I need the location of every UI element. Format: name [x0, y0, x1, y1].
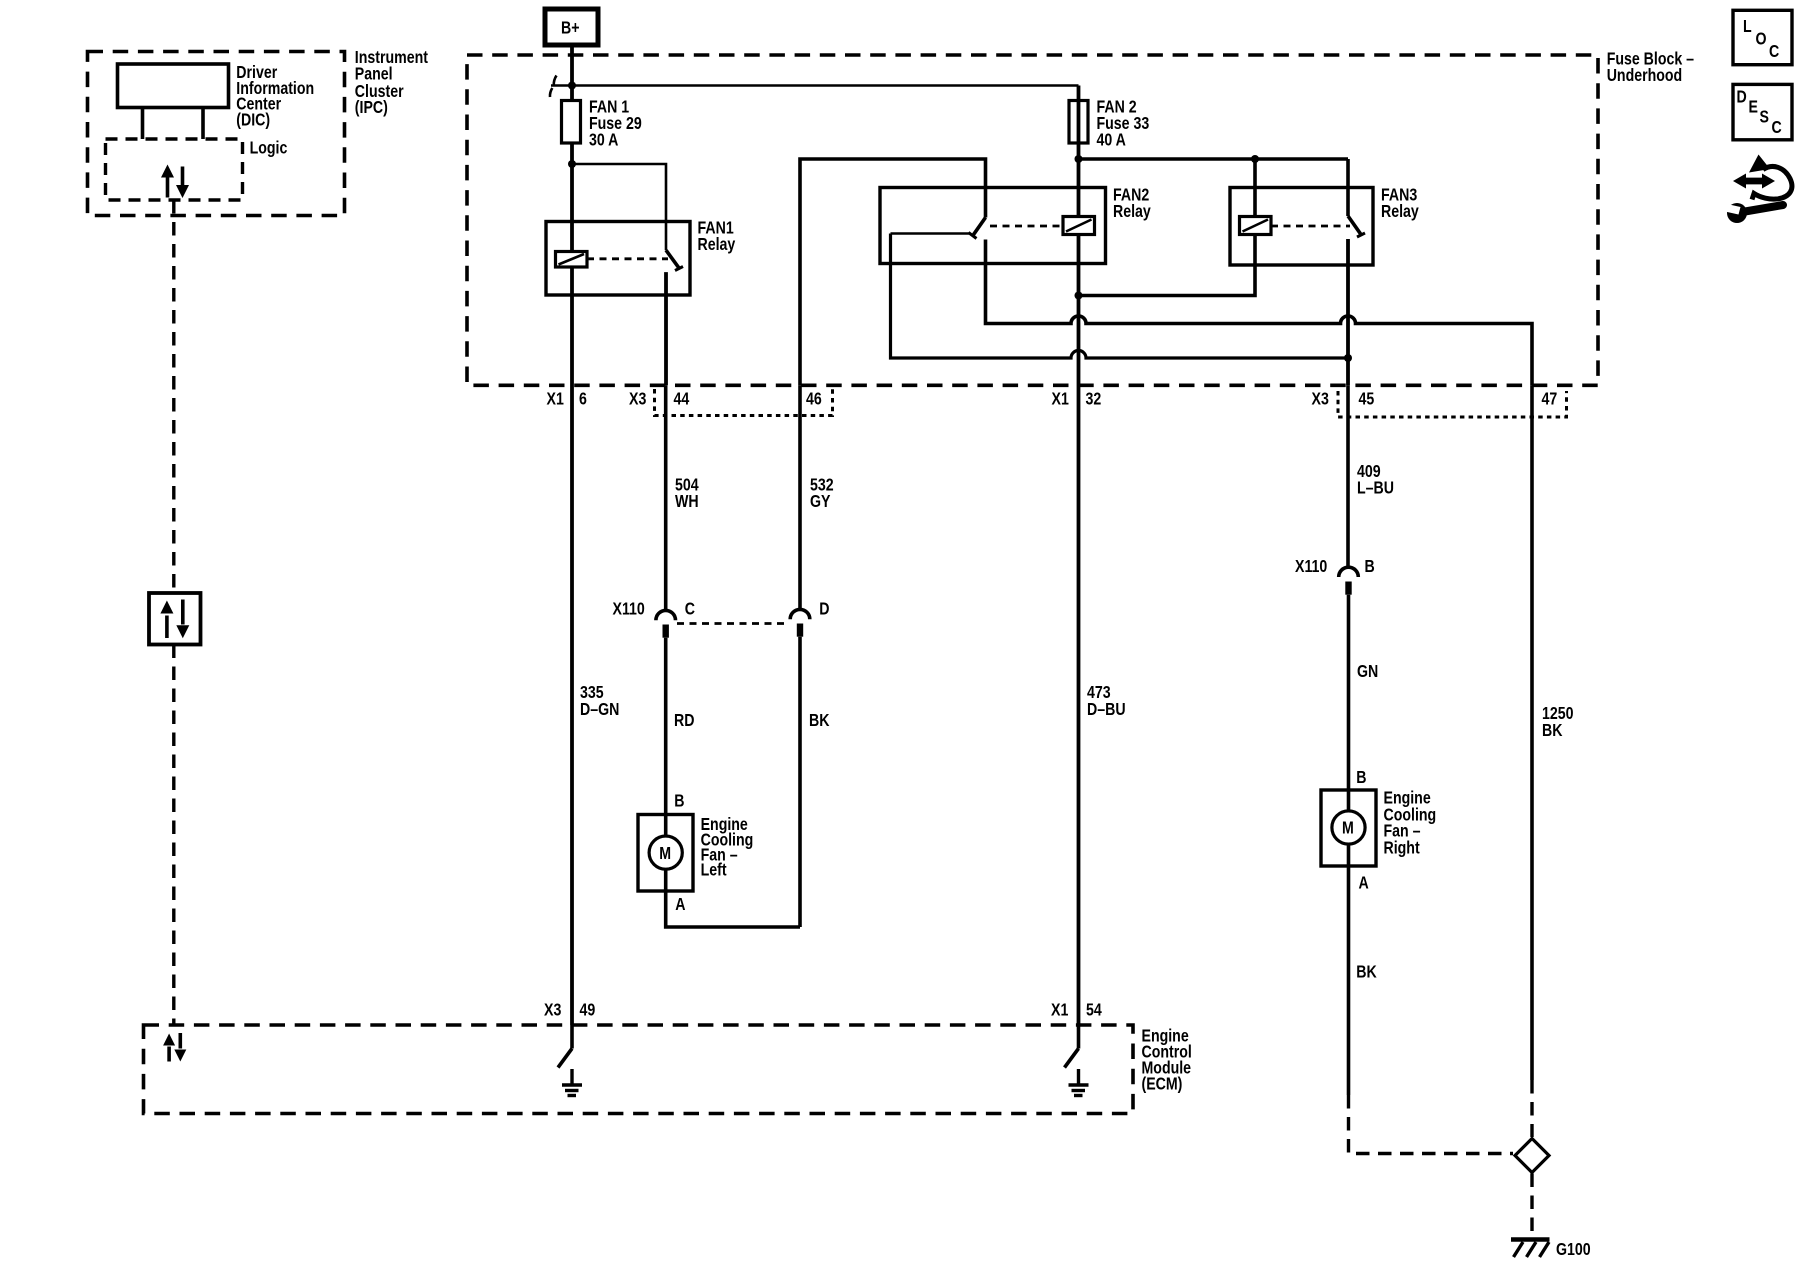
- relay FAN3 coil-to-switch dashed link: [1271, 225, 1350, 228]
- svg-text:BK: BK: [1356, 963, 1377, 982]
- dashed wire right motor BK to splice: [1349, 1095, 1514, 1154]
- wire FAN2/ECM54 main vertical: [1077, 86, 1081, 1026]
- LOC legend box: [1733, 10, 1792, 64]
- Instrument Panel Cluster (IPC) dashed box: [88, 49, 429, 216]
- svg-text:1250: 1250: [1542, 705, 1574, 724]
- relay FAN1 box: [546, 219, 735, 295]
- wire fuse 29 output to FAN1 relay switch: [572, 164, 666, 250]
- serial data up/down arrows in Logic box: [161, 165, 189, 199]
- connector X110 B: [1295, 558, 1375, 595]
- relay FAN2 switch blade: [969, 218, 986, 239]
- wire DIC leg left: [141, 108, 145, 140]
- wire 1250 BK pin 47 down: [1532, 385, 1574, 1080]
- svg-text:X3: X3: [1312, 390, 1329, 409]
- Engine Control Module (ECM) dashed box: [144, 1025, 1192, 1114]
- svg-text:40 A: 40 A: [1097, 131, 1127, 150]
- fuse FAN 1 Fuse 29 30 A: [562, 98, 642, 150]
- svg-text:M: M: [659, 845, 671, 864]
- connector X110 D: [790, 600, 829, 636]
- node junction below fuse 33: [1075, 155, 1083, 163]
- svg-text:30 A: 30 A: [589, 131, 619, 150]
- svg-text:Relay: Relay: [1381, 203, 1419, 222]
- svg-text:GY: GY: [810, 493, 831, 512]
- svg-text:GN: GN: [1357, 663, 1378, 682]
- svg-text:C: C: [1772, 119, 1783, 138]
- svg-text:X1: X1: [1052, 390, 1069, 409]
- svg-text:D: D: [819, 600, 829, 619]
- svg-text:Relay: Relay: [1113, 203, 1151, 222]
- wire 532 GY pin 46 to X110 D: [800, 385, 834, 609]
- node junction at B+ feed: [568, 82, 576, 90]
- svg-text:Engine: Engine: [1384, 789, 1431, 808]
- wire pin46 riser and feed to FAN2 switch: [800, 159, 986, 385]
- fuse FAN 2 Fuse 33 40 A: [1069, 98, 1149, 150]
- dashed wire splice to ground: [1530, 1174, 1533, 1237]
- svg-text:X110: X110: [1295, 558, 1327, 577]
- motor Engine Cooling Fan - Right: [1321, 769, 1436, 893]
- dashed serial data wire from Logic box down: [172, 200, 175, 593]
- wire 409 L-BU pin 45 to X110 B: [1348, 385, 1394, 567]
- svg-text:(IPC): (IPC): [355, 99, 388, 118]
- wire BK right motor A down: [1349, 866, 1378, 1095]
- svg-text:54: 54: [1086, 1001, 1102, 1020]
- svg-text:D: D: [1737, 88, 1747, 107]
- svg-text:B: B: [1356, 769, 1366, 788]
- wire FAN3 switch output down to pin 45: [1346, 239, 1350, 385]
- svg-text:B+: B+: [561, 19, 579, 38]
- relay FAN1 coil: [556, 252, 588, 268]
- svg-text:BK: BK: [809, 712, 830, 731]
- wire FAN1 switch output down to pin 44: [664, 272, 668, 385]
- wire DIC leg right: [201, 108, 205, 140]
- relay FAN2 box: [880, 186, 1151, 263]
- ground G100: [1511, 1240, 1591, 1260]
- svg-text:B: B: [1365, 558, 1375, 577]
- relay FAN3 coil: [1240, 217, 1272, 235]
- serial data up/down arrows in ECM: [163, 1033, 186, 1062]
- svg-text:A: A: [675, 896, 686, 915]
- Logic dashed box: [106, 139, 288, 200]
- svg-text:BK: BK: [1542, 722, 1563, 741]
- ECM pin 54 internal ground: [1065, 1025, 1089, 1096]
- svg-text:335: 335: [580, 684, 604, 703]
- wire 504 WH pin 44 to X110 C: [666, 385, 699, 610]
- DESC legend box: [1733, 84, 1792, 139]
- wire BK X110 D down to motor A link: [800, 637, 830, 927]
- wire B+ main vertical down to ECM pin 49: [570, 45, 574, 1025]
- svg-text:(ECM): (ECM): [1142, 1075, 1183, 1094]
- action icon curved outline arrow: [1749, 155, 1792, 200]
- dashed wire to splice diamond: [1530, 1080, 1533, 1137]
- svg-text:45: 45: [1359, 390, 1375, 409]
- Driver Information Center (DIC) display box: [118, 64, 315, 130]
- svg-text:47: 47: [1542, 390, 1558, 409]
- svg-text:X3: X3: [629, 390, 646, 409]
- relay FAN1 switch blade: [666, 250, 683, 270]
- svg-text:RD: RD: [674, 712, 694, 731]
- svg-text:6: 6: [579, 390, 587, 409]
- svg-text:G100: G100: [1556, 1241, 1591, 1260]
- svg-text:X1: X1: [1051, 1001, 1068, 1020]
- splice diamond: [1515, 1139, 1549, 1173]
- wire FAN2 switch output bus to pin 47: [986, 240, 1533, 386]
- svg-text:46: 46: [806, 390, 822, 409]
- svg-text:Underhood: Underhood: [1607, 67, 1683, 86]
- battery feed hook marks: [550, 76, 557, 98]
- connector X110 C-D dashed link: [677, 622, 786, 625]
- svg-text:L: L: [1743, 18, 1752, 37]
- svg-text:Panel: Panel: [355, 65, 393, 84]
- wire 473 D-BU label: [1087, 684, 1126, 720]
- svg-text:D–BU: D–BU: [1087, 701, 1126, 720]
- wire GN X110 B to right motor B: [1349, 595, 1379, 790]
- svg-text:(DIC): (DIC): [236, 111, 270, 130]
- relay FAN3 switch blade: [1348, 216, 1365, 237]
- svg-text:M: M: [1342, 819, 1354, 838]
- svg-text:O: O: [1756, 30, 1767, 49]
- relay FAN2 coil: [1063, 217, 1095, 235]
- svg-text:A: A: [1359, 874, 1370, 893]
- relay FAN2 coil-to-switch dashed link: [990, 225, 1063, 228]
- serial data symbol box: [149, 593, 201, 645]
- svg-text:Relay: Relay: [698, 236, 736, 255]
- svg-text:Right: Right: [1384, 839, 1421, 858]
- svg-text:Logic: Logic: [250, 139, 288, 158]
- wire motor A to BK wire: [666, 891, 800, 927]
- svg-text:L–BU: L–BU: [1357, 479, 1394, 498]
- svg-text:32: 32: [1086, 390, 1102, 409]
- ECM pin 49 internal ground: [558, 1025, 582, 1096]
- action icon wrench: [1721, 203, 1784, 223]
- fuse block pin labels: [547, 390, 1558, 409]
- svg-text:473: 473: [1087, 684, 1111, 703]
- ECM pin labels: [544, 1001, 1102, 1020]
- svg-text:X1: X1: [547, 390, 564, 409]
- motor Engine Cooling Fan - Left: [638, 792, 753, 914]
- node junction below fuse 29: [568, 160, 576, 168]
- wire FAN2 fixed contact to lower bus: [891, 232, 971, 235]
- svg-text:B: B: [674, 792, 684, 811]
- wire fuse 33 output feed to FAN3 relay: [1079, 157, 1349, 161]
- node junction lower bus at FAN3 output: [1344, 354, 1352, 362]
- relay FAN1 coil-to-switch dashed link: [587, 257, 668, 260]
- svg-text:C: C: [1769, 43, 1780, 62]
- action icon double arrow: [1733, 174, 1775, 189]
- relay FAN3 switch top stub: [1346, 159, 1350, 216]
- connector X3 dotted bracket pins 45-47: [1338, 391, 1567, 417]
- svg-text:X3: X3: [544, 1001, 561, 1020]
- svg-text:49: 49: [580, 1001, 596, 1020]
- svg-text:E: E: [1749, 98, 1758, 117]
- svg-text:C: C: [685, 600, 696, 619]
- wire top feed horizontal to FAN2 fuse: [551, 84, 1079, 87]
- svg-text:X110: X110: [613, 600, 645, 619]
- svg-text:WH: WH: [675, 493, 699, 512]
- connector X3 dotted bracket pins 44-46: [655, 389, 833, 416]
- connector X110 C: [613, 600, 696, 637]
- svg-text:Left: Left: [701, 861, 728, 880]
- node junction FAN2 coil bottom: [1075, 292, 1083, 300]
- svg-text:S: S: [1760, 108, 1769, 127]
- wire RD X110 C to fan motor B: [666, 638, 695, 815]
- svg-text:D–GN: D–GN: [580, 701, 619, 720]
- relay FAN3 box: [1230, 186, 1419, 265]
- svg-text:44: 44: [674, 390, 690, 409]
- battery terminal B+: [545, 9, 598, 45]
- node junction at FAN3 coil feed: [1251, 155, 1259, 163]
- Fuse Block - Underhood dashed box: [467, 50, 1694, 385]
- wire FAN3 coil bottom to FAN2 coil bottom: [1079, 159, 1256, 296]
- dashed serial data wire from symbol box down to ECM: [172, 645, 175, 1026]
- wire 335 D-GN label: [580, 684, 619, 720]
